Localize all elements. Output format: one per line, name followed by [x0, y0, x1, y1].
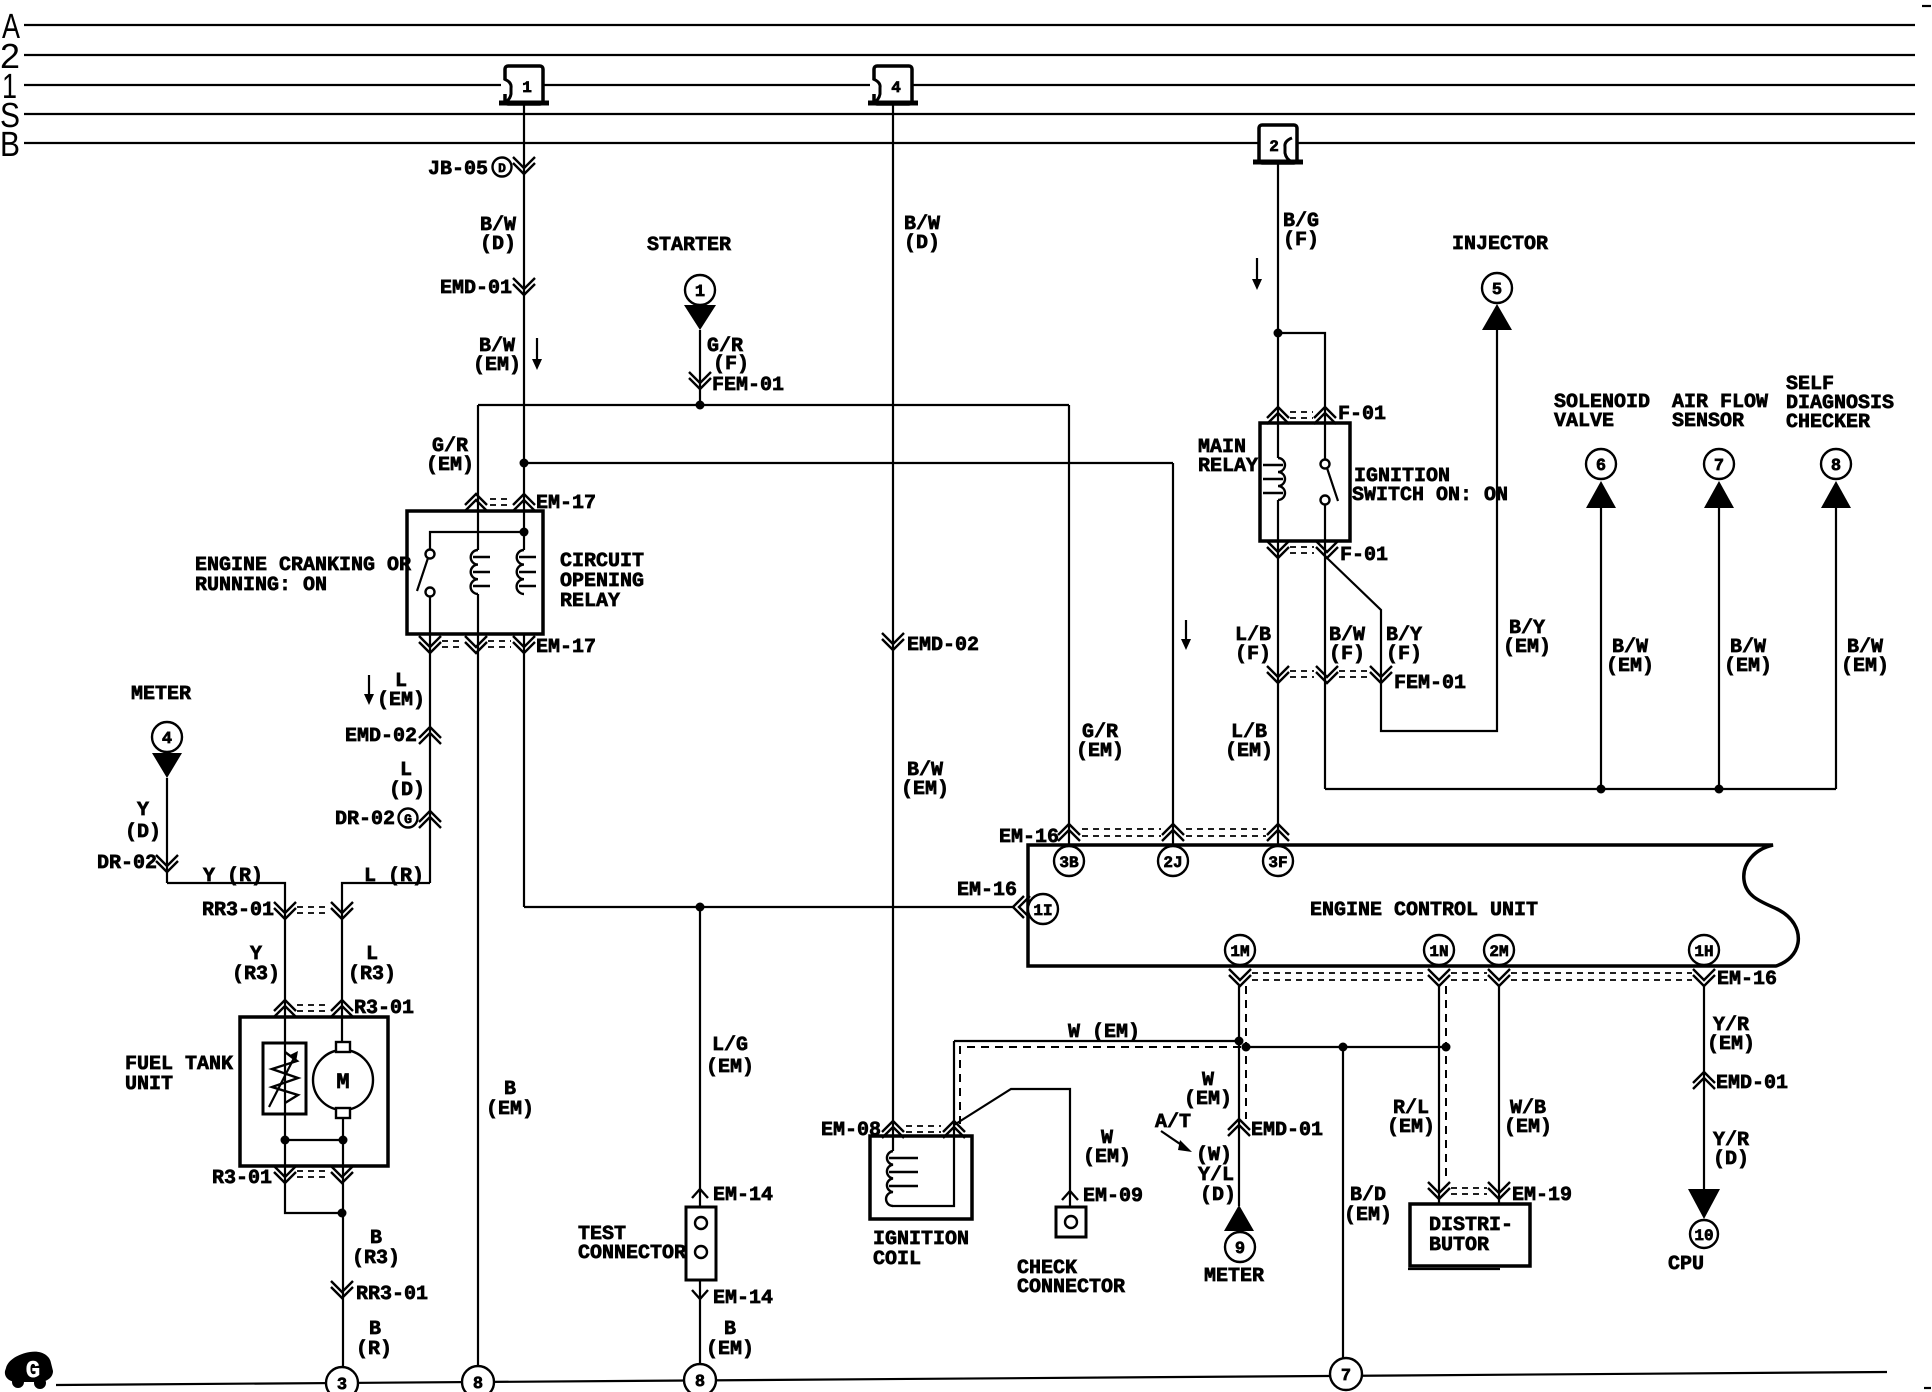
connector 2	[1253, 125, 1303, 163]
wire 2J vertical	[1172, 463, 1174, 846]
svg-text:(EM): (EM)	[1387, 1116, 1435, 1139]
wire B (EM) relay to ground	[477, 594, 479, 1366]
svg-text:(R3): (R3)	[232, 963, 280, 986]
connector chevron FEM-01 b	[1316, 666, 1338, 683]
svg-text:FEM-01: FEM-01	[1394, 672, 1466, 695]
connector chevron EM-16 top c	[1267, 824, 1289, 841]
connector chevron RR3-01 bottom	[331, 1281, 353, 1298]
svg-text:METER: METER	[1204, 1265, 1264, 1288]
ENGINE CONTROL UNIT box	[1028, 845, 1798, 966]
svg-text:M: M	[336, 1070, 349, 1095]
svg-text:Y (R): Y (R)	[203, 865, 263, 888]
wire G/R (EM) horizontal	[524, 462, 1173, 464]
wire coil out	[1277, 500, 1279, 846]
svg-text:(D): (D)	[389, 779, 425, 802]
corner tick bottom right	[1924, 1387, 1931, 1389]
wire 1M solid down to meter	[1238, 986, 1240, 1206]
connector chevron EM-16 left	[1013, 896, 1030, 918]
relay coil 2	[517, 550, 536, 594]
circled D code	[493, 158, 512, 177]
fuel gauge sender resistor box	[263, 1043, 306, 1114]
checker triangle	[1821, 481, 1851, 508]
svg-text:CHECKER: CHECKER	[1786, 411, 1870, 434]
wire injector B/Y down	[1327, 330, 1497, 731]
connector chevron EM-08 a	[882, 1121, 904, 1138]
svg-text:EM-16: EM-16	[999, 826, 1059, 849]
svg-text:EM-17: EM-17	[536, 636, 596, 659]
svg-text:A/T: A/T	[1155, 1111, 1191, 1134]
svg-text:F-01: F-01	[1340, 544, 1388, 567]
svg-text:(EM): (EM)	[1841, 655, 1889, 678]
svg-text:(EM): (EM)	[486, 1098, 534, 1121]
sender arrow	[269, 1051, 298, 1107]
CPU triangle down	[1688, 1189, 1720, 1219]
connector chevron EM-16 bottom c	[1488, 969, 1510, 986]
svg-text:EM-14: EM-14	[713, 1287, 773, 1310]
wire switch out B/W	[1324, 504, 1326, 789]
svg-text:7: 7	[1341, 1367, 1351, 1386]
node junction solenoid	[1597, 785, 1606, 794]
svg-text:(F): (F)	[1386, 643, 1422, 666]
svg-text:(EM): (EM)	[901, 778, 949, 801]
node junction B/D branch	[1339, 1043, 1348, 1052]
wire G/R branch down	[477, 405, 479, 550]
svg-text:(EM): (EM)	[1225, 740, 1273, 763]
wire Y (R) corner	[167, 883, 285, 1043]
svg-text:(D): (D)	[1200, 1184, 1236, 1207]
svg-text:(D): (D)	[480, 233, 516, 256]
harness dashes FEM-01	[1290, 670, 1314, 672]
ignition coil box	[870, 1136, 972, 1219]
connector chevron EM-08 b	[943, 1121, 965, 1138]
ground bus line	[56, 1372, 1887, 1385]
svg-text:(EM): (EM)	[1344, 1204, 1392, 1227]
svg-text:D: D	[498, 161, 506, 176]
solenoid terminal circle 6	[1586, 449, 1616, 479]
connector chevron F-01 bottom a	[1267, 541, 1289, 558]
meter triangle	[152, 753, 182, 778]
node junction 1N branch	[1442, 1043, 1451, 1052]
svg-text:8: 8	[1831, 457, 1841, 476]
wire switch branch	[430, 532, 524, 549]
harness dashes EM-16 bottom	[1252, 972, 1427, 974]
wire switch out	[429, 596, 431, 634]
svg-text:ENGINE CONTROL UNIT: ENGINE CONTROL UNIT	[1310, 899, 1538, 922]
svg-text:10: 10	[1694, 1227, 1713, 1245]
svg-text:EMD-02: EMD-02	[345, 725, 417, 748]
svg-text:3F: 3F	[1268, 854, 1287, 872]
wire 3B vertical	[1068, 405, 1070, 846]
pin 1M	[1225, 935, 1255, 965]
svg-text:RR3-01: RR3-01	[202, 899, 274, 922]
pin 1I	[1028, 894, 1058, 924]
connector chevron EMD-01 cpu	[1693, 1072, 1715, 1089]
svg-text:Y: Y	[137, 799, 149, 822]
node junction W wire	[1235, 1037, 1244, 1046]
wire 1H down to CPU	[1703, 986, 1705, 1189]
ground circle 3	[326, 1367, 358, 1392]
bus line S	[24, 113, 1915, 115]
svg-text:(EM): (EM)	[1724, 655, 1772, 678]
svg-text:8: 8	[473, 1375, 483, 1392]
svg-text:(R): (R)	[356, 1338, 392, 1361]
node junction test connector branch	[696, 903, 705, 912]
connector arrowhead EM-14 bottom	[692, 1290, 708, 1299]
node junction merge	[338, 1209, 347, 1218]
wire 2M to distributor	[1498, 986, 1500, 1204]
svg-text:R3-01: R3-01	[212, 1167, 272, 1190]
flow arrow down	[532, 338, 542, 370]
connector chevron RR3-01 b	[331, 902, 353, 919]
harness dashes R3-01	[297, 1004, 330, 1006]
svg-text:(EM): (EM)	[1503, 636, 1551, 659]
check connector box	[1056, 1207, 1086, 1237]
svg-text:8: 8	[695, 1373, 705, 1392]
test connector box	[686, 1207, 716, 1280]
wire EM-16 horizontal to ECU pin 1I	[524, 906, 1014, 908]
svg-text:EM-09: EM-09	[1083, 1185, 1143, 1208]
wire Y (D) down	[166, 778, 168, 883]
harness dashes EM-08	[906, 1125, 941, 1127]
node junction on connector1 wire	[520, 459, 529, 468]
connector chevron EMD-01	[513, 278, 535, 295]
wire B/W distribution bus	[1325, 788, 1836, 790]
pin 1N	[1424, 935, 1454, 965]
pin 2J	[1158, 846, 1188, 876]
connector 1	[499, 66, 549, 104]
harness dashed companion W	[960, 1047, 1246, 1124]
circuit opening relay box	[407, 511, 543, 634]
ground circle 8 relay	[462, 1366, 494, 1392]
svg-text:EM-14: EM-14	[713, 1184, 773, 1207]
svg-text:(R3): (R3)	[352, 1247, 400, 1270]
distributor box	[1408, 1204, 1530, 1269]
solenoid triangle	[1586, 481, 1616, 508]
svg-text:BUTOR: BUTOR	[1429, 1234, 1489, 1257]
wire W branch right	[1246, 1046, 1446, 1048]
bus line A	[24, 24, 1915, 26]
harness dashes EM-16 top	[1082, 828, 1161, 830]
connector chevron FEM-01 a	[1267, 666, 1289, 683]
connector chevron EM-16 bottom b	[1428, 969, 1450, 986]
connector chevron F-01 top a	[1267, 407, 1289, 424]
harness dashes RR3-01	[297, 906, 330, 908]
connector chevron EM-17 bottom b	[465, 636, 487, 653]
svg-text:3B: 3B	[1059, 854, 1079, 872]
bus line 1	[24, 84, 1915, 86]
svg-text:RR3-01: RR3-01	[356, 1283, 428, 1306]
wire motor down to ground bus	[342, 1140, 344, 1367]
svg-text:1N: 1N	[1429, 943, 1448, 961]
svg-text:G: G	[404, 812, 412, 827]
connector chevron EM-17 bottom c	[513, 636, 535, 653]
fuel tank unit box	[240, 1017, 388, 1166]
connector chevron EM-16 bottom a	[1229, 969, 1251, 986]
wire B/D down to ground	[1342, 1047, 1344, 1358]
svg-text:B: B	[0, 125, 20, 164]
circled G code	[399, 809, 418, 828]
starter triangle	[684, 305, 716, 330]
svg-text:INJECTOR: INJECTOR	[1452, 233, 1548, 256]
wire 1N solid to distributor	[1438, 986, 1440, 1204]
relay switch blade	[417, 558, 428, 591]
wire L to EMD-02	[429, 634, 431, 883]
connector chevron EM-16 top b	[1162, 824, 1184, 841]
svg-text:EM-08: EM-08	[821, 1119, 881, 1142]
wire coil1 stub	[477, 511, 479, 550]
harness dashes EM-17 top	[490, 498, 511, 500]
svg-text:L (R): L (R)	[364, 865, 424, 888]
flow arrow down 2J	[1181, 620, 1191, 650]
wire coil2 stub	[523, 511, 525, 550]
checker terminal circle 8	[1821, 449, 1851, 479]
connector chevron R3-01 bottom b	[331, 1166, 353, 1183]
connector chevron JB-05	[513, 157, 535, 174]
svg-text:(EM): (EM)	[1076, 740, 1124, 763]
svg-text:EMD-01: EMD-01	[1716, 1072, 1788, 1095]
connector chevron EM-17 top left	[465, 494, 487, 511]
svg-text:1: 1	[695, 283, 705, 302]
svg-text:(D): (D)	[904, 232, 940, 255]
node junction link right	[339, 1136, 348, 1145]
connector chevron DR-02 left	[156, 855, 178, 872]
relay switch contacts	[426, 550, 435, 559]
svg-text:6: 6	[1596, 457, 1606, 476]
airflow triangle	[1704, 481, 1734, 508]
svg-text:(EM): (EM)	[377, 689, 425, 712]
svg-text:1M: 1M	[1230, 943, 1249, 961]
wire starter down	[699, 330, 701, 405]
svg-text:(D): (D)	[125, 821, 161, 844]
meter terminal circle 9	[1225, 1232, 1255, 1262]
wire L (R) corner to fuel pump	[342, 883, 430, 1043]
svg-text:1I: 1I	[1033, 902, 1052, 920]
bus line B	[24, 142, 1915, 144]
svg-text:(EM): (EM)	[1606, 655, 1654, 678]
svg-text:RELAY: RELAY	[1198, 455, 1258, 478]
connector chevron EMD-01 meter	[1228, 1119, 1250, 1136]
svg-text:(EM): (EM)	[473, 354, 521, 377]
svg-text:4: 4	[162, 730, 172, 749]
svg-text:EMD-01: EMD-01	[1251, 1119, 1323, 1142]
svg-text:CONNECTOR: CONNECTOR	[1017, 1276, 1125, 1299]
wire FEM-01 horizontal	[478, 404, 1069, 406]
svg-text:(EM): (EM)	[426, 454, 474, 477]
svg-text:EM-16: EM-16	[1717, 968, 1777, 991]
A/T arrow	[1161, 1131, 1192, 1152]
connector chevron EM-17 bottom a	[419, 636, 441, 653]
main relay box	[1260, 423, 1350, 541]
harness dashes F-01 bottom	[1290, 546, 1314, 548]
connector chevron EM-17 top right	[513, 494, 535, 511]
svg-text:EMD-01: EMD-01	[440, 277, 512, 300]
wire sender down	[285, 1140, 342, 1213]
airflow terminal circle 7	[1704, 449, 1734, 479]
connector chevron R3-01 a	[274, 1000, 296, 1017]
svg-text:G: G	[26, 1358, 40, 1385]
wire test connector to ground	[699, 1280, 701, 1364]
svg-text:(R3): (R3)	[348, 963, 396, 986]
svg-text:2: 2	[1269, 138, 1279, 156]
svg-text:(EM): (EM)	[1504, 1116, 1552, 1139]
svg-text:3: 3	[337, 1376, 347, 1392]
sender zigzag	[272, 1052, 298, 1103]
connector chevron EM-19 b	[1488, 1182, 1510, 1199]
svg-text:(EM): (EM)	[1184, 1088, 1232, 1111]
wire from connector 2 down to main relay	[1277, 163, 1279, 458]
connector chevron FEM-01 c	[1370, 666, 1392, 683]
flow arrow down	[364, 675, 374, 705]
bus line 2	[24, 54, 1915, 56]
meter triangle up	[1224, 1205, 1254, 1231]
svg-text:EM-17: EM-17	[536, 492, 596, 515]
svg-text:UNIT: UNIT	[125, 1073, 173, 1096]
wire diagonal to check connector	[954, 1089, 1070, 1207]
connector chevron EMD-02	[419, 727, 441, 744]
svg-text:FEM-01: FEM-01	[712, 374, 784, 397]
wire test connector down	[699, 907, 701, 1207]
connector arrowhead EM-14 top	[692, 1189, 708, 1198]
harness dashes EM-17 bottom	[442, 640, 464, 642]
svg-text:(EM): (EM)	[706, 1338, 754, 1361]
ground circle 8 test	[684, 1364, 716, 1392]
node junction starter	[696, 401, 705, 410]
wire coil secondary	[893, 1041, 954, 1206]
node junction coil2 top	[520, 528, 529, 537]
harness dashes F-01 top	[1290, 411, 1313, 413]
node junction main relay branch	[1274, 329, 1283, 338]
connector chevron R3-01 bottom a	[274, 1166, 296, 1183]
svg-text:(F): (F)	[713, 353, 749, 376]
svg-text:JB-05: JB-05	[428, 158, 488, 181]
wire solenoid B/W	[1600, 508, 1602, 789]
injector triangle	[1482, 304, 1512, 330]
svg-text:CONNECTOR: CONNECTOR	[578, 1242, 686, 1265]
main relay switch contacts	[1321, 460, 1330, 469]
node junction link left	[281, 1136, 290, 1145]
svg-text:7: 7	[1714, 457, 1724, 476]
svg-text:EM-16: EM-16	[957, 879, 1017, 902]
svg-text:W (EM): W (EM)	[1068, 1021, 1140, 1044]
svg-text:RUNNING: ON: RUNNING: ON	[195, 574, 327, 597]
connector chevron R3-01 b	[331, 1000, 353, 1017]
corner tick top right	[1922, 5, 1931, 7]
svg-text:1H: 1H	[1694, 943, 1713, 961]
harness dashes R3-01 bottom	[297, 1170, 330, 1172]
svg-text:DR-02: DR-02	[335, 808, 395, 831]
pin 3F	[1263, 846, 1293, 876]
connector chevron F-01 top b	[1314, 407, 1336, 424]
svg-text:(D): (D)	[1713, 1148, 1749, 1171]
connector chevron FEM-01	[689, 372, 711, 389]
main relay coil	[1263, 458, 1285, 500]
svg-text:DR-02: DR-02	[97, 852, 157, 875]
ground circle 7	[1330, 1358, 1362, 1390]
svg-text:METER: METER	[131, 683, 191, 706]
wire sender vertical	[284, 1043, 286, 1140]
svg-text:EMD-02: EMD-02	[907, 634, 979, 657]
relay coil 1	[471, 550, 490, 594]
svg-text:(EM): (EM)	[1083, 1146, 1131, 1169]
svg-text:(F): (F)	[1329, 643, 1365, 666]
wire link sender-motor	[285, 1139, 343, 1141]
connector chevron F-01 bottom b	[1316, 541, 1338, 558]
svg-text:STARTER: STARTER	[647, 234, 731, 257]
connector chevron RR3-01 a	[274, 902, 296, 919]
starter terminal circle 1	[685, 275, 715, 305]
connector chevron EMD-02 coil wire	[882, 633, 904, 650]
connector chevron EM-19 a	[1428, 1182, 1450, 1199]
meter terminal circle 4	[152, 722, 182, 752]
connector chevron EM-16 top a	[1058, 824, 1080, 841]
svg-text:RELAY: RELAY	[560, 590, 620, 613]
svg-text:VALVE: VALVE	[1554, 410, 1614, 433]
pin 2M	[1484, 935, 1514, 965]
wire checker B/W	[1835, 508, 1837, 789]
CPU terminal circle 10	[1690, 1220, 1718, 1248]
wire motor to link	[342, 1118, 344, 1140]
wire from connector 4 down to ignition coil	[892, 104, 894, 1151]
svg-text:9: 9	[1235, 1240, 1245, 1259]
svg-text:SENSOR: SENSOR	[1672, 410, 1744, 433]
connector chevron EM-16 bottom d	[1693, 969, 1715, 986]
node junction W dashed	[1242, 1043, 1251, 1052]
ground symbol G	[5, 1352, 53, 1389]
connector chevron DR-02	[419, 811, 441, 828]
svg-text:(F): (F)	[1283, 229, 1319, 252]
svg-text:4: 4	[891, 79, 901, 97]
flow arrow down	[1252, 258, 1262, 290]
pin 1H	[1689, 935, 1719, 965]
node junction airflow	[1715, 785, 1724, 794]
ignition coil winding	[886, 1151, 918, 1206]
svg-text:(EM): (EM)	[1707, 1033, 1755, 1056]
svg-text:COIL: COIL	[873, 1248, 921, 1271]
harness dashes EM-19	[1451, 1187, 1487, 1189]
connector arrowhead EM-09	[1062, 1191, 1078, 1200]
svg-text:L/G: L/G	[712, 1034, 748, 1057]
wire W (EM) horizontal	[954, 1040, 1239, 1042]
svg-text:(F): (F)	[1235, 643, 1271, 666]
connector 4	[868, 66, 918, 104]
wire branch to ignition switch	[1278, 333, 1325, 459]
pin 3B	[1054, 846, 1084, 876]
wire airflow B/W	[1718, 508, 1720, 789]
svg-text:5: 5	[1492, 281, 1502, 300]
svg-text:2J: 2J	[1163, 854, 1182, 872]
main relay switch blade	[1327, 468, 1338, 501]
injector terminal circle 5	[1482, 273, 1512, 303]
fuel pump motor M	[313, 1042, 373, 1118]
harness dashed companion 1M	[1245, 986, 1247, 1119]
wire from connector 1 down to ECU row	[523, 104, 525, 550]
svg-text:CPU: CPU	[1668, 1253, 1704, 1276]
svg-text:1: 1	[522, 79, 532, 97]
svg-text:SWITCH ON: ON: SWITCH ON: ON	[1352, 484, 1508, 507]
harness dashed companion 1N	[1445, 986, 1447, 1182]
svg-text:(EM): (EM)	[706, 1056, 754, 1079]
svg-text:2M: 2M	[1489, 943, 1508, 961]
